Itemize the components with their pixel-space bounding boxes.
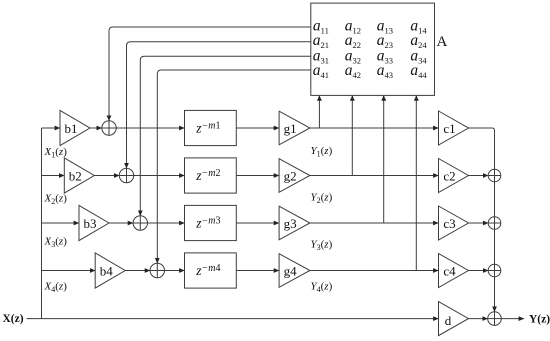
svg-text:c3: c3 [443,216,455,231]
svg-text:g3: g3 [284,216,297,231]
svg-text:g2: g2 [284,169,297,184]
svg-text:X2(z): X2(z) [44,193,68,207]
svg-text:c4: c4 [443,264,456,279]
svg-text:g1: g1 [284,121,297,136]
svg-text:b1: b1 [65,121,78,136]
svg-text:Y(z): Y(z) [529,314,550,326]
svg-text:X(z): X(z) [3,313,24,325]
svg-text:X4(z): X4(z) [44,280,68,294]
svg-text:X1(z): X1(z) [44,146,68,160]
svg-text:Y1(z): Y1(z) [311,145,333,159]
svg-text:b2: b2 [69,169,82,184]
svg-text:d: d [445,313,452,328]
svg-text:X3(z): X3(z) [44,235,68,249]
svg-text:c1: c1 [443,121,455,136]
svg-text:b3: b3 [84,216,97,231]
svg-text:b4: b4 [100,264,114,279]
svg-text:A: A [437,34,448,50]
svg-text:g4: g4 [284,264,298,279]
svg-text:Y3(z): Y3(z) [311,238,333,252]
svg-text:c2: c2 [443,169,455,184]
svg-text:Y2(z): Y2(z) [311,192,333,206]
svg-text:Y4(z): Y4(z) [311,280,333,294]
